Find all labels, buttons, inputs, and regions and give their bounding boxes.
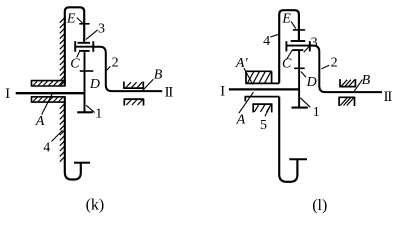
svg-text:B: B: [154, 68, 163, 83]
wall lower segment with bottom U-loop and support T: [65, 97, 81, 179]
leader 5: [265, 107, 270, 116]
svg-text:4: 4: [43, 140, 50, 155]
gear 1 (bottom T of sun shaft): [77, 111, 93, 113]
bearing B lower bracket: [338, 97, 355, 106]
svg-text:C: C: [70, 57, 80, 72]
leader 1: [86, 105, 94, 112]
leader E: [291, 22, 296, 29]
shaft 2 (from gear 2 to shaft II): [93, 47, 162, 91]
gear 1 (bottom T): [292, 107, 308, 109]
gear 2 wheel bar with end ticks: [74, 41, 93, 52]
svg-text:D: D: [89, 77, 100, 92]
wall hatching upper: [60, 18, 65, 87]
bearing B upper bracket: [339, 79, 356, 87]
wall hatching lower: [60, 104, 65, 162]
leader 4: [270, 34, 278, 37]
svg-text:II: II: [165, 84, 174, 100]
central vertical shaft: [298, 50, 300, 108]
svg-text:I: I: [220, 84, 225, 100]
bearing A lower block: [31, 96, 66, 102]
leader A: [239, 92, 254, 113]
svg-text:A: A: [236, 112, 246, 127]
gear C hub bar (lower T of mesh): [79, 50, 90, 52]
svg-text:E: E: [66, 11, 76, 26]
gear C tick bar: [294, 67, 305, 69]
svg-text:4: 4: [263, 34, 270, 49]
gear C tick bar: [80, 70, 94, 72]
gear C hub bar (lower T of mesh): [292, 49, 303, 51]
leader A': [244, 68, 253, 85]
svg-text:E: E: [281, 12, 291, 27]
svg-text:2: 2: [112, 56, 119, 71]
svg-text:A′: A′: [235, 56, 249, 71]
svg-text:1: 1: [95, 107, 102, 122]
leader 2: [106, 66, 110, 70]
gear 2 wheel bar with end ticks: [286, 41, 311, 51]
gear 3 bar (upper T): [78, 42, 91, 44]
support T bar (bottom, frame bearing): [74, 162, 90, 164]
leader A: [42, 92, 53, 114]
leader D: [301, 72, 306, 78]
svg-text:3: 3: [98, 22, 105, 37]
leader 1: [300, 98, 310, 107]
gear 3 bar (upper T): [291, 40, 306, 42]
arm hub line (below shaft I): [245, 97, 280, 102]
leader 4: [52, 130, 63, 141]
shaft I: [229, 88, 300, 90]
svg-text:5: 5: [260, 118, 267, 133]
svg-text:(l): (l): [312, 197, 327, 214]
svg-text:1: 1: [313, 105, 320, 120]
support T bar (bottom): [289, 158, 307, 160]
arm 4 loop (carrier) top: [279, 10, 299, 83]
svg-text:I: I: [5, 86, 10, 102]
bearing B upper bracket: [123, 82, 144, 89]
leader 3: [86, 30, 98, 40]
svg-text:D: D: [306, 75, 317, 90]
leader E: [77, 18, 83, 24]
shaft I: [16, 92, 86, 94]
bearing B lower bracket: [124, 99, 145, 106]
svg-text:(k): (k): [86, 197, 105, 214]
central vertical shaft (sun shaft): [84, 51, 86, 113]
leader B: [142, 79, 153, 91]
leader B: [353, 80, 362, 93]
svg-text:3: 3: [311, 35, 318, 50]
shaft 2 (from gear 2 to shaft II): [311, 46, 382, 93]
frame wall 4 with E-loop top (fixed internal gear housing): [65, 7, 84, 86]
svg-text:A: A: [35, 114, 45, 129]
svg-text:2: 2: [331, 56, 338, 71]
bearing block 5 (hatched bracket): [252, 104, 272, 112]
leader C: [77, 52, 80, 58]
leader C: [286, 50, 292, 60]
leader 3: [304, 45, 311, 52]
svg-text:II: II: [384, 89, 393, 105]
bearing A' bracket: [245, 71, 279, 83]
arm E tick on shaft: [293, 29, 305, 31]
bearing A upper block: [31, 80, 66, 87]
arm E tick on shaft: [79, 23, 89, 25]
leader 2: [321, 65, 329, 69]
svg-text:B: B: [362, 73, 371, 88]
arm 4 lower part with bottom U-loop: [279, 97, 297, 182]
